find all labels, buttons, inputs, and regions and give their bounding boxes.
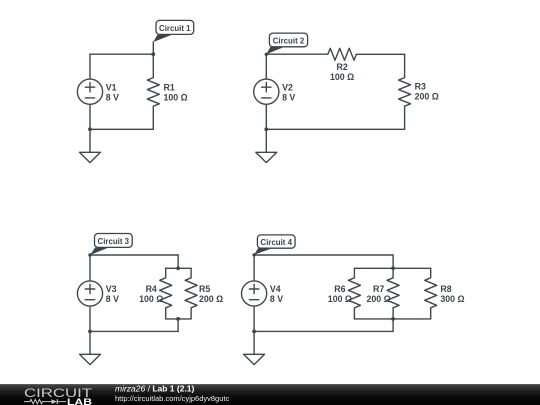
wire: circuit 4 parallel top rail — [354, 267, 430, 269]
svg-text:200 Ω: 200 Ω — [415, 91, 439, 101]
wire: circuit 1 left rail — [89, 54, 91, 129]
svg-text:mirza26 / Lab 1 (2.1): mirza26 / Lab 1 (2.1) — [115, 385, 195, 393]
voltage source V2 — [254, 79, 279, 104]
node: circuit 3 parallel top junction — [176, 266, 180, 270]
voltage source V3 — [77, 281, 102, 306]
wire: circuit 3 bottom rail — [90, 330, 178, 332]
svg-text:V4: V4 — [270, 284, 281, 294]
resistor R6 — [348, 268, 360, 319]
svg-text:Circuit 4: Circuit 4 — [260, 238, 292, 247]
resistor R4 — [160, 268, 172, 319]
node: circuit 4 bottom-left junction — [252, 330, 256, 334]
svg-text:300 Ω: 300 Ω — [440, 294, 464, 304]
node: circuit 1 bottom-left junction — [88, 127, 92, 131]
ground (circuit 3) — [80, 331, 101, 364]
wire: circuit 1 top rail — [90, 53, 153, 55]
ground (circuit 4) — [244, 331, 265, 364]
label flag "Circuit 4" — [254, 235, 295, 255]
svg-text:8 V: 8 V — [106, 294, 119, 304]
svg-text:V3: V3 — [106, 284, 117, 294]
wire: circuit 4 feed down to parallel group — [392, 255, 394, 268]
svg-text:8 V: 8 V — [282, 92, 295, 102]
wire: circuit 3 parallel top rail — [166, 267, 191, 269]
svg-text:Circuit 2: Circuit 2 — [273, 36, 305, 45]
resistor R1 — [147, 54, 159, 129]
node: circuit 3 parallel bottom junction — [176, 317, 180, 321]
wire: circuit 4 feed down to bottom rail — [392, 319, 394, 332]
wire: circuit 4 parallel bottom rail — [354, 318, 430, 320]
wire: circuit 4 top rail — [254, 254, 393, 256]
node: circuit 3 bottom-left junction — [88, 330, 92, 334]
svg-text:8 V: 8 V — [106, 92, 119, 102]
wire: circuit 2 bottom rail — [266, 128, 404, 130]
label flag "Circuit 2" — [266, 33, 307, 54]
voltage source V4 — [242, 281, 267, 306]
node: circuit 1 top junction — [151, 52, 155, 56]
svg-text:http://circuitlab.com/cyjp6dyv: http://circuitlab.com/cyjp6dyv8gutc — [115, 394, 229, 403]
logo doodle: diode — [52, 399, 57, 404]
ground (circuit 2) — [256, 129, 277, 162]
wire: circuit 2 left rail — [265, 54, 267, 129]
svg-text:100 Ω: 100 Ω — [330, 72, 354, 82]
svg-text:V1: V1 — [106, 82, 117, 92]
wire: circuit 3 feed down to parallel pair — [177, 255, 179, 268]
ground (circuit 1) — [80, 129, 101, 162]
svg-text:100 Ω: 100 Ω — [139, 294, 163, 304]
node: circuit 2 flag anchor — [265, 53, 268, 56]
resistor R2 — [328, 48, 405, 60]
wire: circuit 2 top rail with resistor R2 — [266, 53, 327, 55]
svg-text:R7: R7 — [373, 284, 384, 294]
svg-text:100 Ω: 100 Ω — [328, 294, 352, 304]
voltage source V1 — [77, 79, 102, 104]
wire: circuit 4 bottom rail — [254, 330, 393, 332]
svg-text:R2: R2 — [336, 62, 347, 72]
wire: circuit 3 left rail — [89, 255, 91, 331]
wire: circuit 3 parallel bottom rail — [166, 318, 191, 320]
footer bar — [0, 384, 540, 405]
wire: circuit 1 bottom rail — [90, 128, 153, 130]
resistor R3 — [399, 54, 411, 129]
logo doodle: wire and resistor zigzag — [24, 399, 66, 403]
svg-text:Circuit 1: Circuit 1 — [159, 24, 191, 33]
node: circuit 4 flag anchor — [252, 253, 255, 256]
svg-text:LAB: LAB — [67, 397, 92, 405]
svg-text:R1: R1 — [164, 82, 175, 92]
svg-text:Circuit 3: Circuit 3 — [98, 237, 130, 246]
svg-text:R3: R3 — [415, 81, 426, 91]
wire: circuit 4 left rail — [253, 255, 255, 331]
wire: circuit 1 label stub — [152, 42, 154, 54]
svg-text:R6: R6 — [334, 284, 345, 294]
label flag "Circuit 3" — [90, 234, 132, 256]
label flag "Circuit 1" — [153, 20, 193, 42]
node: circuit 2 bottom-left junction — [264, 127, 268, 131]
svg-text:R8: R8 — [440, 284, 451, 294]
node: circuit 3 flag anchor — [88, 253, 91, 256]
wire: circuit 3 feed down to bottom rail — [177, 319, 179, 332]
svg-text:R5: R5 — [199, 284, 210, 294]
svg-text:100 Ω: 100 Ω — [164, 92, 188, 102]
svg-text:200 Ω: 200 Ω — [367, 294, 391, 304]
resistor R8 — [425, 268, 437, 319]
wire: circuit 3 top rail — [90, 254, 178, 256]
svg-text:R4: R4 — [146, 284, 157, 294]
resistor R7 — [387, 268, 399, 319]
svg-text:8 V: 8 V — [270, 294, 283, 304]
svg-text:V2: V2 — [282, 82, 293, 92]
svg-text:200 Ω: 200 Ω — [199, 294, 223, 304]
node: circuit 4 parallel top junction — [391, 266, 395, 270]
node: circuit 4 parallel bottom junction — [391, 317, 395, 321]
resistor R5 — [185, 268, 197, 319]
